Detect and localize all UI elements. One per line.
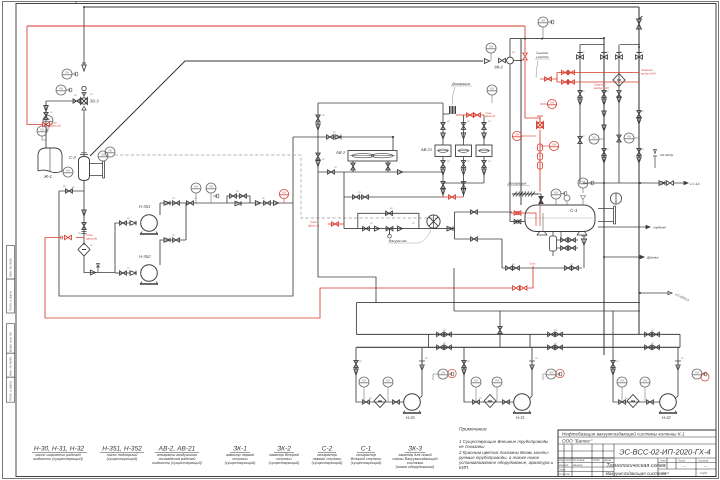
ball valve ЗВ-3 [81,86,88,113]
svg-text:КИП.: КИП. [459,465,469,470]
vessel bottom drop [560,231,562,240]
svg-text:Дата: Дата [603,458,612,462]
svg-text:ЗВ-3: ЗВ-3 [90,99,100,104]
svg-text:Технологическая схема: Технологическая схема [606,463,665,469]
svg-text:Вакуумсоздающая система: Вакуумсоздающая система [606,471,667,476]
saddles [537,231,587,235]
wire Ж-1 feed line y=99 [46,100,81,102]
svg-text:Инв. № дубл.: Инв. № дубл. [9,356,13,376]
pump Н-351 [141,215,158,235]
svg-text:Н-351, Н-352: Н-351, Н-352 [102,446,142,453]
АВ-2 air cooler long unit [348,151,397,162]
wire x=84 below С-2 [83,180,85,245]
instrument PT [56,85,66,95]
svg-text:АВ-2: АВ-2 [335,150,346,155]
svg-text:на свечу: на свечу [660,153,674,157]
wire main line y=203 [160,202,293,204]
red deaeration line [456,114,484,116]
gauges on main line [191,183,201,193]
svg-text:ЗК-2: ЗК-2 [277,446,291,453]
svg-text:сорбент: сорбент [653,226,666,230]
svg-text:ЭС-ВСС-02-ИП-2020-ГХ-4: ЭС-ВСС-02-ИП-2020-ГХ-4 [619,448,711,457]
instrument LI [37,126,47,136]
pump Н-352 [141,265,158,285]
дренаж arrow [604,255,644,258]
svg-text:Деаэрация: Деаэрация [451,82,470,86]
stubs right from x=462 [455,212,513,239]
instrument LT [43,116,53,126]
svg-text:Н-351: Н-351 [139,204,150,209]
gauges above ЗВ-2 [486,43,496,53]
svg-text:–: – [703,464,707,470]
svg-text:жидкости (существующий): жидкости (существующий) [32,457,83,461]
svg-text:Иванов: Иванов [573,463,583,467]
svg-text:(новое оборудование): (новое оборудование) [396,465,435,469]
valve pair H-351 suction [120,221,127,225]
к С-1А arrow [659,181,665,186]
svg-text:(существующий): (существующий) [312,461,343,465]
svg-text:воздух КИП: воздух КИП [641,71,657,75]
АВ-2 below connections [318,161,443,172]
reducer on suction [90,270,95,275]
svg-text:Слив: Слив [529,263,536,266]
bypass over ejector line [358,213,419,228]
top main line [84,6,639,8]
svg-text:Н-30: Н-30 [406,415,415,420]
svg-text:Н.контр.: Н.контр. [559,472,571,476]
gauges [589,134,599,144]
svg-text:участок: участок [535,55,549,59]
svg-text:(фикс.В): (фикс.В) [51,125,61,128]
wire H-352 discharge [160,240,186,265]
instruments right of С-2 [98,151,108,161]
svg-text:ЗК-3: ЗК-3 [408,446,422,453]
wire x=84 between ЗВ-3 and С-2 [83,113,85,157]
crossed circle (ЗК-3 unit) [427,215,440,229]
svg-text:Сгрд: Сгрд [700,471,707,475]
line y=197 [344,172,441,229]
red vertical from top [27,26,540,226]
ejector line y=228.6 [344,228,455,230]
svg-text:Сгрд: Сгрд [662,471,669,475]
pump unit Н-31 [462,347,565,420]
drain cylinder below [550,231,579,256]
relief pair above ЗВ-3 [82,65,87,71]
svg-text:устанавливаемое оборудование,: устанавливаемое оборудование, арматура и [458,460,554,465]
svg-text:(фикс.В): (фикс.В) [86,236,97,240]
svg-text:не показаны: не показаны [459,444,485,449]
red ball valve ЗК-3 [537,116,544,129]
valves on y268 [506,266,513,270]
svg-text:Инв. № подл.: Инв. № подл. [9,257,13,277]
svg-text:Примечание: Примечание [459,427,487,433]
red inlet lines left head [510,213,536,226]
right nozzle + flange [598,206,616,224]
wire Ж-1 riser x=45 [45,101,47,148]
svg-text:АВ-21: АВ-21 [420,147,432,152]
cone on x=84 [82,210,87,216]
red instruments [547,99,556,108]
header valve pairs [437,332,444,336]
valves at y55 row [577,53,584,60]
headers [356,333,680,335]
svg-text:ЗК-1: ЗК-1 [233,446,247,453]
wire suction H-352 [115,272,131,274]
separator С-2 [79,153,105,181]
АВ-21 below stacks [443,157,484,198]
top-left format box [75,2,77,4]
red drain stub [328,223,344,225]
svg-text:Подп. и дата: Подп. и дата [9,291,13,311]
svg-text:Вакуум нас: Вакуум нас [389,239,407,243]
svg-text:Н-30, Н-31, Н-32: Н-30, Н-31, Н-32 [34,446,85,453]
red fittings below [538,144,543,169]
svg-text:Н-352: Н-352 [139,254,151,259]
hatched block [450,106,456,114]
svg-text:С-1: С-1 [361,446,372,453]
svg-text:ООО "Бапекс": ООО "Бапекс" [562,438,593,443]
center long vertical x=318 [318,103,376,303]
svg-text:С-2: С-2 [69,155,76,160]
bypass loop [227,196,250,203]
top instruments [551,189,561,199]
ball valve ЗВ-2 [499,58,506,62]
dashed signal line [115,155,440,218]
valve on x45 [44,113,48,120]
svg-text:(существующий): (существующий) [225,461,256,465]
svg-text:Взам. инв. №: Взам. инв. № [9,332,13,352]
valves y149-166 [578,137,582,144]
сорбент arrow [598,225,650,228]
svg-text:ЗВ-2: ЗВ-2 [494,65,503,70]
reducer before ЗВ-2 [484,59,489,64]
svg-text:(фикс.В): (фикс.В) [485,115,495,118]
valve left loop [66,189,73,193]
tag [72,72,78,76]
valve stack on x=318 [316,115,320,122]
svg-text:Подп. и дата: Подп. и дата [9,381,13,401]
filter diamond right [613,74,625,87]
wire left loop [59,190,84,192]
tank Ж-1 [38,148,62,173]
inline reducers/valves [255,201,260,206]
valve pair H-352 suction [120,271,127,275]
valves on ejector line [363,226,370,230]
svg-text:(существующий): (существующий) [351,461,382,465]
в Е-205/1А arrow [640,291,672,294]
headers [502,7,665,355]
left revision stamp boxes [7,246,15,403]
instrument TI left of С-2 [63,167,73,177]
svg-text:Разраб.: Разраб. [559,463,569,467]
wire bubble stems [42,125,48,140]
instrument PI top [62,69,72,79]
valve on main line [187,201,194,205]
check+valve H-351 discharge [164,201,170,206]
svg-text:АВ-2, АВ-21: АВ-2, АВ-21 [158,446,196,453]
svg-text:–: – [682,464,686,470]
funnel at x=577 [583,236,585,268]
vertical x=462 [454,212,456,239]
upper distribution lines [356,303,680,348]
filter diamond left [78,243,90,256]
dip internals [527,217,593,219]
wire H-351 discharge [159,203,161,215]
svg-text:Лит.: Лит. [659,459,667,463]
red valve on drain [65,235,72,239]
svg-text:Дренаж: Дренаж [646,256,659,260]
check+valve H-352 discharge [164,238,170,243]
wire x=84 filter to suction run [84,256,115,273]
vent stub [653,156,657,168]
reducer on x45 [44,106,49,112]
svg-text:(фикс.Н): (фикс.Н) [308,224,319,228]
red line to drain (left) [45,238,533,319]
АВ-21 cooler units [435,145,492,157]
safety valve on x=639 [637,16,643,29]
svg-text:жидкости (существующий): жидкости (существующий) [151,461,202,465]
svg-text:Нефтебазация вакуумсоздающей с: Нефтебазация вакуумсоздающей системы кол… [562,431,685,436]
vessel С-1 [525,205,595,232]
svg-text:Подп.: Подп. [593,458,601,462]
svg-text:Н-32: Н-32 [662,415,671,420]
vertical x=521 [520,39,522,205]
svg-text:С-1: С-1 [570,208,578,213]
instrument at top right [538,17,548,27]
svg-text:Ж-1: Ж-1 [43,174,52,179]
svg-text:Лист: Лист [564,458,573,462]
svg-text:№ докум.: № докум. [573,458,586,462]
globe on x604 [602,111,607,117]
АВ-21 risers above [318,103,484,145]
svg-text:Лист: Лист [677,459,686,463]
svg-text:С-2: С-2 [322,446,333,453]
red inlet arrow top left [27,26,42,125]
svg-text:Пров.: Пров. [559,468,567,472]
valve on y99 [73,99,80,103]
svg-text:к С-1А: к С-1А [690,182,700,186]
wire suction riser x=115 [115,223,131,273]
svg-text:(существующий): (существующий) [107,457,138,461]
wire main vertical x=84 top [83,7,85,64]
svg-text:Н-31: Н-31 [516,415,525,420]
pump unit Н-30 [354,347,457,420]
diagonal from С-2 [90,61,483,156]
АВ-2 supply lines [293,137,393,151]
pump unit Н-32 [611,311,709,420]
red tie valve between coolers [441,196,463,198]
red bubble ЗК [279,189,288,198]
valve pair on x=84 [82,223,86,230]
red manifold right [540,73,639,83]
svg-text:(существующий): (существующий) [269,461,300,465]
svg-text:Листов: Листов [697,459,709,463]
svg-text:Деаэрация: Деаэрация [507,182,526,186]
valve stacks y 91-107 [578,91,582,98]
relief valve small on suction [96,264,100,273]
